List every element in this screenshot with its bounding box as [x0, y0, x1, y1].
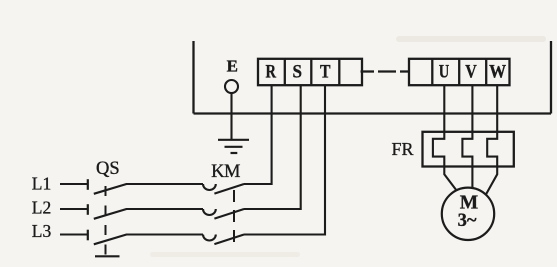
- QS linkage dashed line: [105, 186, 107, 255]
- wire U with FR heater element 1: [433, 85, 456, 190]
- wire QS pole1 to KM pole1: [126, 183, 203, 185]
- svg-text:L1: L1: [32, 174, 51, 194]
- svg-text:V: V: [465, 62, 477, 83]
- wire L3 lead: [60, 233, 88, 235]
- enclosure frame right wire: [550, 41, 552, 114]
- svg-text:R: R: [266, 62, 277, 83]
- KM linkage dashed line: [233, 190, 235, 242]
- svg-text:S: S: [293, 62, 303, 83]
- wire KM pole3 to terminal T: [244, 85, 325, 234]
- ground: [218, 140, 249, 153]
- dashed cable link RST to UVW: [361, 70, 410, 72]
- enclosure frame bottom bus wire: [194, 112, 552, 114]
- svg-text:W: W: [489, 62, 506, 83]
- switch QS pole 3: [88, 230, 127, 245]
- wire QS pole2 to KM pole2: [126, 208, 203, 210]
- svg-text:3~: 3~: [458, 211, 477, 231]
- contactor KM pole 3: [203, 235, 244, 245]
- faint scan smudge bottom left: [150, 252, 300, 257]
- wire QS pole3 to KM pole3: [126, 233, 203, 235]
- svg-text:KM: KM: [211, 162, 240, 182]
- wire KM pole1 to terminal R: [244, 85, 272, 184]
- faint scan smudge top right: [396, 36, 546, 42]
- svg-text:E: E: [227, 57, 238, 76]
- wire V with FR heater element 2: [462, 85, 472, 188]
- contactor KM pole 2: [203, 209, 244, 219]
- svg-text:L3: L3: [32, 221, 52, 241]
- QS linkage end bar: [95, 255, 120, 257]
- earth terminal E circle: [225, 80, 238, 93]
- terminal block RST: [258, 59, 362, 85]
- wire KM pole2 to terminal S: [244, 85, 301, 209]
- motor M circle: [442, 188, 494, 240]
- svg-text:U: U: [439, 62, 450, 83]
- svg-text:T: T: [320, 62, 331, 83]
- contactor KM pole 1: [203, 184, 244, 194]
- switch QS pole 1: [88, 179, 127, 194]
- enclosure frame left wire: [192, 41, 194, 114]
- wire L1 lead: [60, 183, 88, 185]
- terminal block UVW: [409, 59, 510, 85]
- thermal relay FR box: [423, 132, 514, 167]
- wire W with FR heater element 3: [486, 85, 497, 194]
- wire E to ground: [230, 93, 232, 139]
- switch QS pole 2: [88, 204, 127, 219]
- wire L2 lead: [60, 208, 88, 210]
- svg-text:FR: FR: [391, 139, 413, 159]
- svg-text:QS: QS: [96, 159, 120, 179]
- svg-text:L2: L2: [32, 197, 51, 217]
